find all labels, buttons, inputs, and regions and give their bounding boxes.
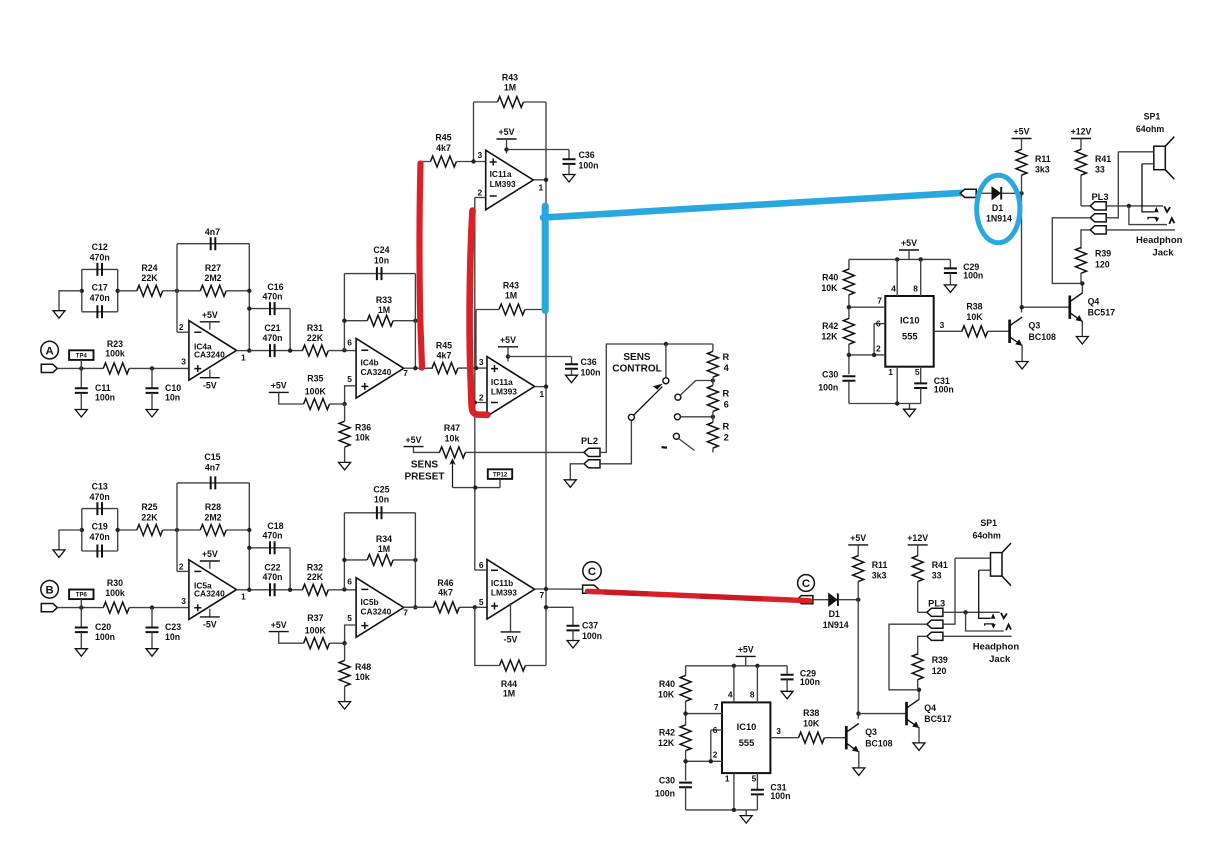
jack tip contact: [943, 611, 1000, 613]
node pin3 mid: [474, 366, 478, 370]
svg-text:10k: 10k: [355, 672, 370, 682]
svg-text:10k: 10k: [355, 433, 370, 443]
jack ring switch: [1148, 218, 1157, 220]
svg-text:33: 33: [1095, 164, 1105, 174]
capacitor C37 100n: [546, 607, 573, 626]
svg-text:12K: 12K: [821, 331, 838, 341]
pin 2 stub: [475, 197, 486, 199]
node C16 left: [247, 546, 251, 550]
wire rail to ground: [909, 404, 911, 410]
wire D1 to node: [1002, 192, 1022, 194]
wire box left vertical: [343, 274, 345, 351]
wire R47 to PL2: [466, 451, 585, 453]
svg-text:R38: R38: [966, 301, 982, 311]
node pin6: [342, 348, 346, 352]
jack ring wire: [966, 612, 1004, 631]
pin 7 wire: [849, 306, 885, 308]
ground: [53, 311, 65, 319]
capacitor C10 10n: [151, 368, 153, 388]
wire Q4 collector: [1081, 283, 1083, 293]
wire block to ground: [59, 291, 82, 311]
capacitor C13 470n: [81, 509, 83, 551]
ground: [339, 702, 351, 710]
svg-text:+5V: +5V: [500, 335, 516, 345]
node pin4 rail: [732, 664, 736, 668]
svg-text:2: 2: [479, 392, 484, 402]
wire R35 to pin5 node: [330, 642, 345, 644]
wire feedback left vertical: [473, 102, 475, 162]
svg-text:R43: R43: [502, 73, 518, 83]
pin 7 output wire: [404, 367, 433, 369]
svg-text:+12V: +12V: [1071, 127, 1092, 137]
transistor Q4 BC517: [905, 702, 908, 725]
svg-text:2M2: 2M2: [204, 512, 221, 522]
svg-text:IC10: IC10: [900, 315, 920, 325]
node pin3 top: [471, 159, 475, 163]
svg-text:6: 6: [347, 577, 352, 587]
node pin1 rail: [895, 401, 899, 405]
capacitor C22 470n: [249, 589, 302, 591]
svg-text:Q4: Q4: [1088, 297, 1100, 307]
wire R to pin3: [129, 607, 189, 609]
svg-text:470n: 470n: [90, 253, 110, 263]
wire IC5b out to R46: [404, 606, 434, 608]
svg-text:CA3240: CA3240: [194, 349, 225, 359]
resistor R40 10K: [685, 666, 687, 676]
red annotation line bottom: [588, 591, 811, 601]
resistor R34 1M: [344, 559, 367, 561]
svg-text:1M: 1M: [505, 291, 517, 301]
node R40/R42: [847, 305, 851, 309]
node feedback left: [175, 528, 179, 532]
wire R31 to pin6: [328, 350, 356, 352]
capacitor C18 470n: [249, 547, 290, 549]
svg-text:5: 5: [347, 374, 352, 384]
wire Q4 emitter to ground: [1081, 321, 1083, 337]
wire PL3-2 to R39 bottom: [889, 624, 927, 690]
capacitor C29 100n: [949, 259, 951, 268]
pin 4: [733, 666, 735, 703]
svg-text:1: 1: [241, 592, 246, 602]
node C10 junction: [150, 605, 154, 609]
transistor Q3 BC108: [845, 726, 848, 749]
node pin2/pin6: [709, 759, 713, 763]
wire branch from IC4b output: [420, 162, 422, 369]
wire R45 to pin3: [457, 161, 486, 163]
capacitor C16 470n: [249, 308, 290, 310]
svg-text:-5V: -5V: [504, 635, 518, 645]
input connector A: [41, 364, 57, 372]
svg-text:Q3: Q3: [1029, 321, 1041, 331]
svg-text:555: 555: [902, 331, 918, 341]
svg-text:1M: 1M: [503, 689, 515, 699]
svg-text:10K: 10K: [803, 718, 820, 728]
pin 1 output wire: [237, 589, 250, 591]
svg-text:R28: R28: [205, 502, 221, 512]
svg-text:+5V: +5V: [406, 435, 422, 445]
node feedback left: [175, 289, 179, 293]
svg-text:10n: 10n: [165, 393, 180, 403]
node R33 left: [342, 319, 346, 323]
svg-text:R46: R46: [437, 578, 453, 588]
svg-text:1N914: 1N914: [986, 214, 1012, 224]
svg-text:100n: 100n: [818, 382, 838, 392]
svg-text:1M: 1M: [378, 544, 390, 554]
svg-text:100k: 100k: [105, 349, 125, 359]
diode D1 1N914: [829, 594, 837, 606]
svg-text:+5V: +5V: [271, 381, 287, 391]
wire PL3-2 to R39 bottom: [1052, 218, 1090, 284]
potentiometer R47 10k: [440, 447, 466, 458]
wire R45 to pin3: [458, 367, 487, 369]
svg-text:C11: C11: [95, 383, 111, 393]
op-amp IC11a LM393 (top): [486, 150, 534, 210]
node output mid: [544, 384, 548, 388]
svg-text:IC10: IC10: [737, 722, 757, 732]
svg-text:2: 2: [179, 322, 184, 332]
wire C16 right vertical: [289, 548, 291, 590]
capacitor C30 100n: [679, 783, 692, 788]
blue ellipse around D1: [977, 175, 1020, 242]
svg-text:CA3240: CA3240: [361, 606, 392, 616]
ground: [339, 462, 351, 470]
node pin8 rail: [755, 664, 759, 668]
svg-text:C13: C13: [92, 481, 108, 491]
wire box right vertical: [414, 274, 416, 369]
svg-text:R41: R41: [1095, 154, 1111, 164]
svg-text:R45: R45: [436, 341, 452, 351]
svg-text:2: 2: [713, 750, 718, 760]
svg-text:100n: 100n: [655, 789, 675, 799]
resistor R43 1M (mid): [476, 309, 499, 311]
resistor R38 10K: [962, 326, 988, 337]
resistor R41 33: [917, 545, 919, 556]
svg-text:10K: 10K: [658, 690, 675, 700]
blue annotation line to D1: [543, 193, 963, 218]
svg-text:A: A: [46, 345, 54, 357]
svg-text:C10: C10: [165, 383, 181, 393]
op-amp IC4a CA3240: [189, 321, 237, 381]
svg-text:4k7: 4k7: [438, 588, 453, 598]
pin 6 wire: [711, 729, 722, 731]
capacitor C29 100n: [786, 666, 788, 675]
pin 2 wire: [177, 331, 189, 333]
ground: [740, 816, 752, 824]
power -5V: [510, 603, 512, 632]
jack switch arm: [979, 570, 991, 618]
node R39 bottom: [917, 688, 921, 692]
wire ground rail: [849, 403, 921, 405]
node A: [41, 341, 59, 359]
svg-text:R37: R37: [307, 613, 323, 623]
pin 4: [896, 259, 898, 296]
wire input to R23: [57, 367, 103, 369]
wire Q4 base: [1022, 306, 1070, 308]
svg-text:3: 3: [181, 357, 186, 367]
svg-text:1: 1: [725, 773, 730, 783]
svg-text:R41: R41: [932, 560, 948, 570]
svg-text:R27: R27: [205, 263, 221, 273]
svg-text:4k7: 4k7: [437, 350, 452, 360]
node R33 left: [342, 558, 346, 562]
svg-text:PL3: PL3: [928, 599, 945, 609]
svg-text:100k: 100k: [105, 588, 125, 598]
switch contact 3: [674, 414, 680, 420]
svg-text:R45: R45: [435, 133, 451, 143]
capacitor C25 10n: [344, 512, 415, 514]
svg-text:+5V: +5V: [202, 310, 218, 320]
jack tip contact: [1106, 205, 1163, 207]
svg-text:Headphon: Headphon: [1136, 235, 1183, 246]
node TP junction: [79, 605, 83, 609]
svg-text:5: 5: [347, 613, 352, 623]
svg-text:CONTROL: CONTROL: [612, 363, 661, 374]
transistor Q3 BC108: [1008, 320, 1011, 343]
resistor R24 22K: [137, 285, 163, 296]
svg-text:8: 8: [913, 283, 918, 293]
ground: [944, 285, 956, 293]
svg-text:R32: R32: [307, 562, 323, 572]
resistor R39 120: [1076, 247, 1087, 273]
capacitor C36 100n (mid): [571, 357, 573, 365]
node B: [41, 581, 59, 599]
svg-text:D1: D1: [829, 609, 840, 619]
svg-text:1N914: 1N914: [823, 620, 849, 630]
connector overlay top: [960, 189, 976, 197]
wire speaker lower to switch: [979, 569, 991, 571]
pin 6 stub: [475, 569, 487, 571]
wire +5V rail: [686, 665, 788, 667]
svg-text:2: 2: [876, 343, 881, 353]
svg-text:IC11a: IC11a: [490, 169, 512, 179]
node output b: [544, 587, 548, 591]
pin 2 stub: [475, 402, 487, 404]
svg-text:Jack: Jack: [1152, 247, 1174, 258]
ground: [75, 410, 87, 418]
svg-text:BC517: BC517: [1088, 307, 1115, 317]
svg-text:4: 4: [724, 363, 730, 373]
svg-text:6: 6: [713, 725, 718, 735]
svg-text:C23: C23: [165, 622, 181, 632]
svg-text:B: B: [46, 585, 54, 597]
pin 2 wire: [177, 570, 189, 572]
pin 2 wire: [686, 760, 722, 762]
transistor Q4 BC517: [1068, 296, 1071, 319]
svg-text:C22: C22: [264, 562, 280, 572]
IC IC10 555: [885, 296, 933, 367]
ground: [563, 175, 575, 183]
wire Q4 collector: [918, 690, 920, 700]
svg-text:4: 4: [891, 283, 896, 293]
wire Q4 emitter to ground: [918, 727, 920, 743]
svg-text:Jack: Jack: [989, 654, 1011, 665]
resistor R31 22K: [302, 345, 328, 356]
resistor R39 120: [912, 654, 923, 680]
node output top: [544, 178, 548, 182]
wire PL2-2 ground: [570, 464, 584, 480]
svg-text:470n: 470n: [90, 492, 110, 502]
svg-text:5: 5: [752, 773, 757, 783]
wire Q4 base: [859, 713, 907, 715]
jack ring contact: [1006, 625, 1011, 631]
pin 5 / capacitor C31 100n: [920, 367, 922, 384]
resistor R42 12K: [680, 725, 691, 751]
wire speaker to jack tip sw: [955, 557, 991, 559]
capacitor C15 4n7: [177, 482, 249, 484]
node Q3 collector / Q4 base: [856, 711, 860, 715]
wire feedback right vertical: [248, 244, 250, 351]
svg-text:+5V: +5V: [850, 533, 866, 543]
node feedback right: [247, 528, 251, 532]
svg-text:10k: 10k: [445, 433, 460, 443]
svg-text:555: 555: [739, 738, 755, 748]
svg-text:3k3: 3k3: [872, 571, 887, 581]
wire +5V rail: [849, 258, 951, 260]
wire wiper to threshold: [453, 487, 501, 489]
node pin1 rail: [732, 808, 736, 812]
wire node to Q3 collector: [1021, 193, 1023, 312]
wire feedback left vertical: [475, 310, 477, 369]
node pin2/pin6: [872, 353, 876, 357]
svg-text:22K: 22K: [141, 512, 158, 522]
svg-text:8: 8: [750, 690, 755, 700]
wire plug to D1: [813, 599, 829, 601]
pin 8: [756, 666, 758, 703]
ground: [566, 375, 578, 383]
node output: [247, 348, 251, 352]
svg-text:470n: 470n: [262, 531, 282, 541]
svg-text:R42: R42: [822, 321, 838, 331]
svg-text:R11: R11: [872, 560, 888, 570]
wire box left vertical: [343, 513, 345, 590]
svg-text:SP1: SP1: [1144, 112, 1161, 122]
svg-text:3: 3: [479, 357, 484, 367]
capacitor C20 100n: [80, 608, 82, 628]
resistor chain R-6: [712, 377, 714, 385]
op-amp IC11a LM393 (mid): [487, 357, 535, 417]
wire D1 to node: [839, 599, 859, 601]
svg-text:470n: 470n: [262, 291, 282, 301]
svg-text:SP1: SP1: [980, 518, 997, 528]
svg-text:CA3240: CA3240: [194, 589, 225, 599]
pin 1: [733, 773, 735, 810]
node pin5: [473, 605, 477, 609]
svg-text:100n: 100n: [581, 367, 601, 377]
wire PL2-2 to switch arm: [600, 420, 632, 464]
resistor R11 3k3: [857, 545, 859, 556]
wire ground rail: [686, 809, 758, 811]
svg-text:IC5b: IC5b: [361, 597, 379, 607]
op-amp IC4b CA3240: [356, 339, 404, 399]
svg-text:PL3: PL3: [1091, 192, 1108, 202]
svg-text:100n: 100n: [800, 677, 820, 687]
resistor chain R-4: [712, 344, 714, 351]
pin 3 wire: [770, 737, 798, 739]
node R33 right: [413, 319, 417, 323]
ground: [781, 691, 793, 699]
svg-text:R40: R40: [659, 679, 675, 689]
wire threshold vertical: [474, 198, 476, 571]
node output feedback: [413, 605, 417, 609]
svg-text:3: 3: [940, 320, 945, 330]
wire IC4b out to R45: [421, 367, 432, 369]
svg-text:64ohm: 64ohm: [1136, 124, 1165, 134]
jack sleeve wire: [943, 635, 1012, 637]
svg-text:R31: R31: [307, 323, 323, 333]
svg-text:R: R: [723, 388, 730, 398]
pin 5 wire: [345, 386, 357, 404]
resistor R45 4k7 (mid): [432, 363, 458, 374]
svg-text:+5V: +5V: [202, 549, 218, 559]
node pin5 bias: [342, 641, 346, 645]
svg-text:470n: 470n: [90, 532, 110, 542]
node TP junction: [79, 366, 83, 370]
svg-text:R43: R43: [503, 280, 519, 290]
svg-text:TP12: TP12: [493, 472, 508, 478]
svg-text:Headphon: Headphon: [973, 641, 1020, 652]
svg-text:LM393: LM393: [491, 588, 517, 598]
node jack tee: [1127, 204, 1131, 208]
op-amp IC11b LM393: [487, 560, 535, 620]
svg-text:100n: 100n: [963, 271, 983, 281]
node output: [247, 588, 251, 592]
resistor R46 4k7: [433, 602, 459, 613]
svg-text:-5V: -5V: [203, 620, 217, 630]
resistor R42 12K: [843, 318, 854, 344]
pin 8: [920, 259, 922, 296]
ground: [1016, 362, 1028, 370]
resistor R28 2M2: [177, 529, 200, 531]
svg-text:C: C: [588, 566, 596, 578]
wire R45 left branch: [421, 161, 431, 163]
svg-text:64ohm: 64ohm: [973, 530, 1002, 540]
svg-text:IC4b: IC4b: [361, 358, 379, 368]
svg-text:R35: R35: [307, 374, 323, 384]
node D1/R11: [1019, 191, 1023, 195]
svg-text:3: 3: [776, 726, 781, 736]
pin 1 output wire: [237, 350, 250, 352]
node threshold mid pin2: [473, 400, 477, 404]
pin 5 wire: [345, 625, 357, 643]
svg-text:C36: C36: [581, 357, 597, 367]
svg-text:7: 7: [540, 590, 545, 600]
wire R24 to feedback node: [163, 529, 177, 531]
svg-text:100K: 100K: [305, 386, 327, 396]
mark: [662, 446, 668, 449]
svg-text:7: 7: [877, 296, 882, 306]
svg-text:SENS: SENS: [623, 352, 651, 363]
node tap1: [711, 378, 715, 382]
wire to C36: [508, 356, 572, 358]
red annotation line 2: [470, 211, 488, 415]
node pin5 bias: [342, 402, 346, 406]
node pin4 rail: [895, 257, 899, 261]
svg-text:C30: C30: [822, 369, 838, 379]
node C10 junction: [150, 366, 154, 370]
svg-text:+5V: +5V: [901, 238, 917, 248]
pin 5 / capacitor C31 100n: [756, 773, 758, 790]
resistor R36 10k: [344, 404, 346, 421]
red annotation line 1: [419, 164, 422, 368]
ground: [1076, 337, 1088, 345]
resistor R38 10K: [799, 732, 825, 743]
svg-text:PL2: PL2: [581, 436, 598, 446]
svg-text:IC11a: IC11a: [491, 377, 513, 387]
svg-text:+5V: +5V: [1014, 127, 1030, 137]
wire R31 to pin6: [328, 589, 356, 591]
node R40/R42: [683, 711, 687, 715]
node C (right): [798, 575, 815, 592]
